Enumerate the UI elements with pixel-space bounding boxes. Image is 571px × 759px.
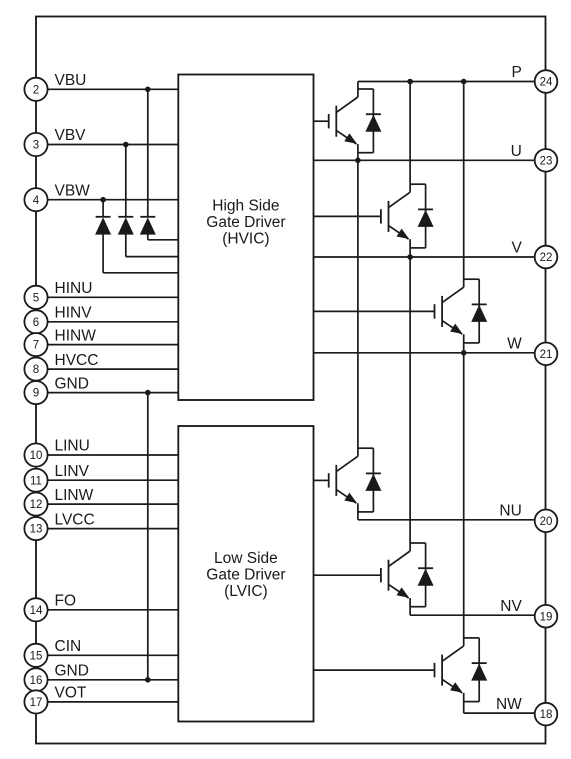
svg-text:19: 19: [540, 611, 553, 623]
pin 20 (NU): [535, 510, 558, 533]
svg-text:2: 2: [33, 84, 39, 96]
svg-text:LINV: LINV: [55, 463, 90, 480]
svg-text:9: 9: [33, 388, 39, 400]
pin 18 (NW): [535, 703, 558, 726]
pin 10 (LINU): [24, 443, 47, 466]
diode D1 (bootstrap, cathode up): [140, 217, 156, 235]
svg-text:Low Side: Low Side: [214, 550, 278, 567]
wire: diode D1 anode return into HVIC: [148, 234, 179, 240]
pin 24 (P): [535, 70, 558, 93]
wire: Q1 emitter to U node: [357, 144, 359, 160]
junction on GND (pin 9) line: [145, 390, 151, 396]
wire: pin 6 HINV to IC block: [48, 321, 179, 323]
svg-text:LINU: LINU: [55, 438, 90, 455]
svg-text:16: 16: [30, 675, 43, 687]
svg-text:8: 8: [33, 364, 39, 376]
svg-text:GND: GND: [55, 663, 89, 680]
wire: VBW branch down to bootstrap diode D3: [102, 200, 104, 216]
wire: Q4 collector to U node: [357, 160, 359, 456]
wire: diode D3 anode return into HVIC: [103, 234, 178, 273]
junction: U node: [355, 158, 361, 164]
svg-text:15: 15: [30, 650, 43, 662]
svg-text:LINW: LINW: [55, 487, 94, 504]
svg-text:18: 18: [540, 709, 553, 721]
pin 6 (HINV): [24, 310, 47, 333]
wire: Q5 collector to V node: [409, 257, 411, 551]
wire: gate of Q5 from driver: [314, 574, 381, 576]
transistor Q2 (V-phase high-side IGBT): [381, 192, 410, 239]
wire: Q1 collector to P rail: [357, 82, 359, 98]
svg-text:17: 17: [30, 697, 43, 709]
pin 5 (HINU): [24, 286, 47, 309]
diode D5 (freewheel across Q2): [410, 184, 434, 248]
svg-text:VOT: VOT: [55, 685, 87, 702]
svg-text:(HVIC): (HVIC): [222, 230, 269, 247]
transistor Q4 (U-phase low-side IGBT): [329, 456, 358, 503]
diode D9 (freewheel across Q6): [464, 638, 488, 702]
pin 16 (GND): [24, 668, 47, 691]
wire: pin 12 LINW to IC block: [48, 503, 179, 505]
svg-text:GND: GND: [55, 375, 89, 392]
transistor Q5 (V-phase low-side IGBT): [381, 551, 410, 598]
pin 19 (NV): [535, 605, 558, 628]
svg-text:12: 12: [30, 499, 43, 511]
wire: NW node to pin 18: [464, 712, 535, 714]
pin 7 (HINW): [24, 333, 47, 356]
svg-text:HINV: HINV: [55, 305, 93, 322]
wire: gate of Q1 from driver: [314, 120, 328, 122]
wire: VBU branch down to bootstrap diode D1: [147, 89, 149, 216]
svg-text:4: 4: [33, 195, 40, 207]
wire: V node from HVIC to pin 22: [314, 256, 535, 258]
svg-text:P: P: [511, 64, 521, 81]
wire: pin 15 CIN to IC block: [48, 654, 179, 656]
wire: pin 13 LVCC to IC block: [48, 528, 179, 530]
pin 8 (HVCC): [24, 358, 47, 381]
pin 21 (W): [535, 343, 558, 366]
pin 17 (VOT): [24, 690, 47, 713]
pin 2 (VBU): [24, 78, 47, 101]
wire: Q4 emitter to NU node: [357, 503, 359, 520]
junction: W node: [461, 350, 467, 356]
pin 13 (LVCC): [24, 517, 47, 540]
wire: VBV branch down to bootstrap diode D2: [125, 145, 127, 217]
wire: Q3 collector to P rail: [463, 82, 465, 288]
pin 3 (VBV): [24, 133, 47, 156]
wire: pin 11 LINV to IC block: [48, 479, 179, 481]
wire: gate of Q2 from driver: [314, 215, 380, 217]
wire: pin 16 GND to IC block: [48, 679, 179, 681]
svg-text:NW: NW: [496, 696, 522, 713]
transistor Q3 (W-phase high-side IGBT): [435, 287, 464, 334]
IC U1: High Side Gate Driver (HVIC): [178, 75, 313, 401]
svg-text:Gate Driver: Gate Driver: [206, 214, 285, 231]
junction on VBW line: [100, 197, 106, 203]
svg-text:21: 21: [540, 349, 553, 361]
wire: U node from HVIC to pin 23: [314, 159, 535, 161]
junction: V node: [407, 254, 413, 260]
wire: Q2 emitter to V node: [409, 239, 411, 257]
wire: NU node to pin 20: [358, 519, 535, 521]
wire: W node from HVIC to pin 21: [314, 352, 535, 354]
wire: pin 7 HINW to IC block: [48, 344, 179, 346]
svg-text:W: W: [507, 336, 522, 353]
svg-text:(LVIC): (LVIC): [224, 583, 268, 600]
pin 22 (V): [535, 246, 558, 269]
wire: diode D2 anode return into HVIC: [126, 234, 179, 257]
svg-text:High Side: High Side: [212, 197, 279, 214]
pin 9 (GND): [24, 381, 47, 404]
wire: pin 10 LINU to IC block: [48, 454, 179, 456]
wire: pin 14 FO to IC block: [48, 609, 179, 611]
svg-text:14: 14: [30, 605, 43, 617]
pin 4 (VBW): [24, 188, 47, 211]
wire: Q3 emitter to W node: [463, 334, 465, 353]
svg-text:Gate Driver: Gate Driver: [206, 566, 285, 583]
pin 14 (FO): [24, 598, 47, 621]
svg-text:7: 7: [33, 340, 39, 352]
wire: Q2 collector to P rail: [409, 82, 411, 193]
svg-text:VBV: VBV: [55, 127, 87, 144]
junction on VBV line: [123, 142, 129, 148]
wire: gate of Q3 from driver: [314, 310, 434, 312]
wire: Q5 emitter to NV node: [409, 598, 411, 615]
svg-text:U: U: [511, 143, 522, 160]
transistor Q6 (W-phase low-side IGBT): [435, 646, 464, 693]
diode D4 (freewheel across Q1): [358, 89, 382, 153]
svg-text:11: 11: [30, 475, 42, 487]
svg-text:3: 3: [33, 140, 39, 152]
junction: P rail / Q2 collector: [407, 79, 413, 85]
wire: P rail to pin 24: [358, 81, 535, 83]
pin 23 (U): [535, 149, 558, 172]
svg-text:HINU: HINU: [55, 280, 93, 297]
svg-text:CIN: CIN: [55, 638, 82, 655]
wire: GND bus from pin 9 line down to pin 16 line: [147, 393, 149, 680]
diode D7 (freewheel across Q4): [358, 448, 382, 512]
svg-text:FO: FO: [55, 593, 77, 610]
IC U2: Low Side Gate Driver (LVIC): [178, 426, 313, 722]
wire: Q6 emitter to NW node: [463, 693, 465, 713]
svg-text:HINW: HINW: [55, 327, 97, 344]
svg-text:NU: NU: [499, 503, 521, 520]
svg-text:23: 23: [540, 155, 553, 167]
svg-text:24: 24: [540, 77, 553, 89]
svg-text:VBU: VBU: [55, 72, 87, 89]
wire: pin 5 HINU to IC block: [48, 296, 179, 298]
wire: pin 17 VOT to IC block: [48, 701, 179, 703]
svg-text:HVCC: HVCC: [55, 352, 99, 369]
pin 12 (LINW): [24, 493, 47, 516]
svg-text:V: V: [511, 240, 522, 257]
wire: pin 8 HVCC to IC block: [48, 368, 179, 370]
wire: pin 9 GND to IC block: [48, 392, 179, 394]
wire: pin 4 VBW to IC block: [48, 199, 179, 201]
junction on GND (pin 16) line: [145, 677, 151, 683]
pin 15 (CIN): [24, 644, 47, 667]
pin 11 (LINV): [24, 469, 47, 492]
junction: P rail / Q3 collector: [461, 79, 467, 85]
svg-text:LVCC: LVCC: [55, 511, 95, 528]
svg-text:10: 10: [30, 450, 43, 462]
diode D8 (freewheel across Q5): [410, 543, 434, 607]
diode D2 (bootstrap, cathode up): [118, 217, 134, 235]
svg-text:20: 20: [540, 516, 553, 528]
svg-text:13: 13: [30, 524, 43, 536]
svg-text:22: 22: [540, 252, 553, 264]
wire: gate of Q4 from driver: [314, 479, 328, 481]
wire: gate of Q6 from driver: [314, 669, 434, 671]
diode D6 (freewheel across Q3): [464, 279, 488, 343]
svg-text:6: 6: [33, 317, 39, 329]
wire: pin 3 VBV to IC block: [48, 144, 179, 146]
transistor Q1 (U-phase high-side IGBT): [329, 97, 358, 144]
wire: pin 2 VBU to IC block: [48, 88, 179, 90]
svg-text:VBW: VBW: [55, 182, 91, 199]
svg-text:5: 5: [33, 292, 39, 304]
diode D3 (bootstrap, cathode up): [95, 217, 111, 235]
wire: Q6 collector to W node: [463, 353, 465, 646]
junction on VBU line: [145, 87, 151, 93]
wire: NV node to pin 19: [410, 614, 535, 616]
svg-text:NV: NV: [500, 598, 522, 615]
